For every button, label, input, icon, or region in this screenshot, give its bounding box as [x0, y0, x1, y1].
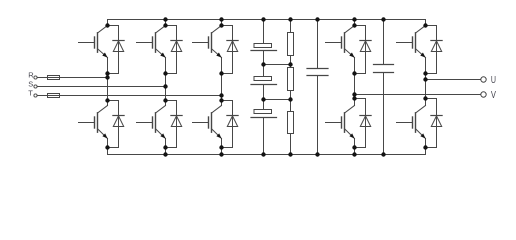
svg-text:T: T: [28, 89, 33, 98]
svg-text:S: S: [28, 80, 33, 89]
svg-text:U: U: [491, 75, 496, 86]
svg-text:V: V: [491, 90, 496, 101]
svg-text:R: R: [28, 71, 34, 80]
